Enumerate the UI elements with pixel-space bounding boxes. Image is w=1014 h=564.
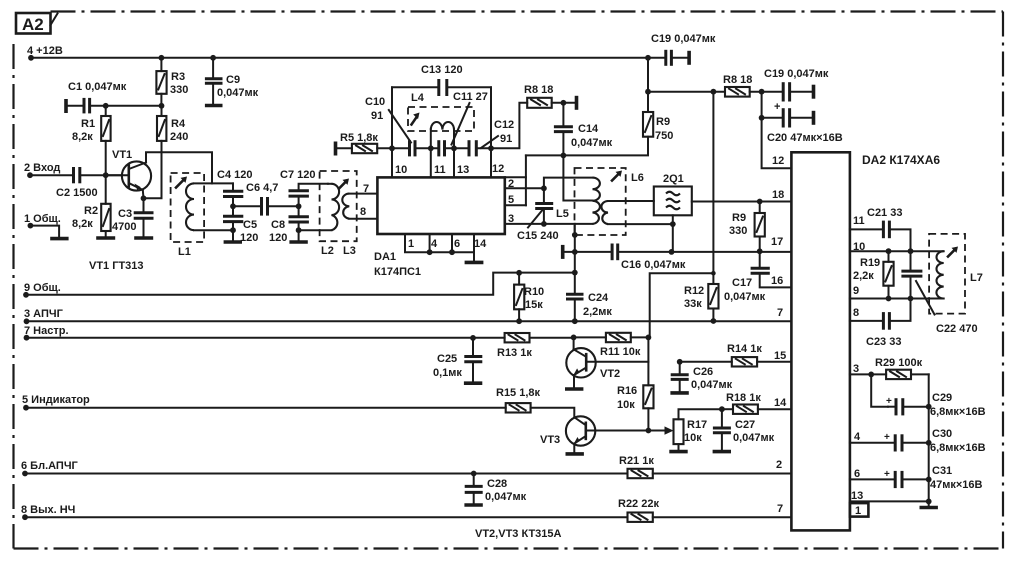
svg-text:0,1мк: 0,1мк (433, 367, 462, 379)
resistor R18 (722, 392, 792, 414)
capacitor C29 (886, 392, 986, 418)
svg-text:18: 18 (772, 189, 784, 201)
wire pin 12 riser (490, 87, 492, 177)
inductor L6 (601, 172, 672, 224)
capacitor C24 (566, 292, 612, 321)
svg-text:L4: L4 (411, 92, 425, 104)
wire obsh-1 to ground (30, 226, 59, 238)
terminal (C19 top right) (687, 51, 691, 65)
node VT1 emitter junction (141, 195, 147, 201)
ground (C3) (134, 236, 153, 240)
wire pin 3 line (850, 373, 886, 375)
terminal (R8 right) (575, 96, 579, 110)
svg-text:C5: C5 (243, 219, 257, 231)
svg-text:R8 18: R8 18 (524, 84, 553, 96)
svg-text:C8: C8 (271, 219, 285, 231)
node R9 top junction (645, 89, 651, 95)
svg-text:VT3: VT3 (540, 434, 560, 446)
node pin11/L4 junction (428, 145, 434, 151)
capacitor C9 (205, 58, 259, 104)
capacitor C4 (217, 169, 252, 206)
wire C29 link (871, 374, 888, 406)
resistor R14 (727, 343, 791, 367)
node 1 Obsh label (24, 213, 61, 229)
capacitor C1 (68, 81, 162, 113)
node VT2 collector junction (571, 335, 577, 341)
svg-text:C26: C26 (693, 366, 713, 378)
node R10 bottom junction (516, 318, 522, 324)
svg-text:VT1 ГТ313: VT1 ГТ313 (89, 260, 144, 272)
svg-text:C29: C29 (932, 392, 952, 404)
svg-text:9: 9 (853, 285, 859, 297)
svg-text:13: 13 (851, 490, 863, 502)
node pin13 rail junction (926, 499, 932, 505)
resistor R8 (first) (524, 84, 575, 108)
resistor R12 (684, 273, 719, 321)
svg-text:L2: L2 (321, 245, 334, 257)
svg-text:0,047мк: 0,047мк (733, 432, 775, 444)
node C22 top junction (908, 248, 914, 254)
svg-text:2Q1: 2Q1 (663, 173, 684, 185)
svg-text:C22 470: C22 470 (936, 323, 978, 335)
wire APCHG line to DA2 pin7 (27, 320, 792, 322)
svg-text:DA2 К174ХА6: DA2 К174ХА6 (862, 153, 940, 167)
node C27 junction (719, 406, 725, 412)
svg-text:DA1: DA1 (374, 251, 396, 263)
terminal (C19-2 right) (812, 85, 816, 99)
wire pin 10 line (850, 250, 944, 252)
capacitor C19 (second) (764, 68, 829, 102)
svg-text:C31: C31 (932, 465, 952, 477)
node 9 Obsh label (23, 282, 61, 298)
svg-text:R17: R17 (687, 419, 707, 431)
node C15 top junction (541, 185, 547, 191)
resistor R15 (496, 387, 574, 417)
svg-text:4700: 4700 (112, 221, 136, 233)
wire pin 11 lead (430, 148, 432, 177)
svg-text:16: 16 (771, 275, 783, 287)
svg-text:91: 91 (500, 133, 512, 145)
svg-text:5: 5 (508, 194, 514, 206)
resistor R1 (72, 106, 111, 175)
node R8/C14 junction (561, 100, 567, 106)
svg-text:R29 100к: R29 100к (875, 357, 923, 369)
svg-text:C10: C10 (365, 96, 385, 108)
svg-text:0,047мк: 0,047мк (485, 491, 527, 503)
svg-text:C15 240: C15 240 (517, 230, 559, 242)
wire pin 10 riser (391, 87, 393, 177)
svg-text:R19: R19 (860, 257, 880, 269)
svg-text:C13 120: C13 120 (421, 64, 463, 76)
wire pin 13 line (850, 500, 929, 502)
svg-text:A2: A2 (22, 15, 44, 34)
resistor R16 (617, 385, 654, 431)
node 5 Indikator label (22, 394, 90, 411)
wire DA1 bottom pins (405, 234, 474, 255)
svg-text:L6: L6 (631, 172, 644, 184)
svg-text:4 +12В: 4 +12В (27, 45, 63, 57)
svg-text:2,2мк: 2,2мк (583, 306, 612, 318)
capacitor C5 (223, 206, 258, 244)
capacitor C7 (280, 169, 328, 206)
capacitor C27 (713, 409, 775, 450)
wire Bl.APCHG line (25, 473, 628, 475)
svg-text:R4: R4 (171, 118, 186, 130)
svg-text:C6 4,7: C6 4,7 (246, 182, 278, 194)
capacitor C6 (233, 182, 299, 216)
svg-text:1: 1 (855, 505, 861, 517)
wire ZQ1 bottom lead (672, 215, 674, 251)
inductor L7 (936, 251, 982, 298)
node R12 T junction (711, 271, 716, 276)
node R3/R4 junction (159, 103, 165, 109)
svg-text:R14 1к: R14 1к (727, 343, 762, 355)
svg-text:240: 240 (170, 131, 188, 143)
wire Vyh.NCh line (25, 516, 628, 518)
inductor L4 (411, 92, 454, 148)
svg-text:10к: 10к (684, 432, 702, 444)
svg-text:0,047мк: 0,047мк (571, 137, 613, 149)
svg-text:R8 18: R8 18 (723, 74, 752, 86)
ground (VT3 emitter) (566, 452, 584, 456)
svg-text:VT2,VT3 КТ315А: VT2,VT3 КТ315А (475, 528, 562, 540)
node base junction (103, 172, 109, 178)
ground (C28) (464, 503, 482, 507)
node R19 bottom junction (886, 296, 892, 302)
node C19-2 junction (759, 89, 765, 95)
svg-text:13: 13 (457, 164, 469, 176)
node R9-330 top junction (757, 199, 763, 205)
resistor R3 (156, 58, 188, 106)
resistor R13 (497, 333, 574, 359)
svg-text:R3: R3 (171, 71, 185, 83)
svg-text:R2: R2 (84, 205, 98, 217)
svg-text:33к: 33к (684, 298, 702, 310)
svg-text:R5 1,8к: R5 1,8к (340, 132, 378, 144)
wire R12 feed riser (712, 92, 714, 274)
svg-text:10к: 10к (617, 399, 635, 411)
svg-text:14: 14 (774, 397, 787, 409)
node riser/obsh junction (572, 270, 578, 276)
resistor R2 (72, 175, 111, 236)
A2 title box (16, 13, 58, 34)
svg-text:R10: R10 (524, 286, 544, 298)
svg-text:L1: L1 (178, 246, 191, 258)
svg-text:C27: C27 (735, 419, 755, 431)
capacitor C20 (762, 101, 843, 144)
svg-text:К174ПС1: К174ПС1 (374, 266, 421, 278)
node pin13/L4 junction (451, 145, 457, 151)
capacitor C28 (465, 471, 527, 504)
wire osc line to R8 (491, 103, 527, 149)
svg-text:11: 11 (434, 164, 446, 176)
svg-text:R22 22к: R22 22к (618, 498, 659, 510)
terminal (C1 left) (64, 99, 68, 113)
capacitor C17 (724, 251, 791, 303)
svg-text:C1 0,047мк: C1 0,047мк (68, 81, 127, 93)
capacitor C30 (884, 428, 986, 454)
inductor L1 dashed box (171, 173, 205, 242)
ground (C27) (713, 450, 731, 454)
svg-text:C14: C14 (578, 123, 599, 135)
node C22 bottom junction (908, 296, 914, 302)
node C16/vert junction (572, 249, 578, 255)
svg-text:7: 7 (363, 183, 369, 195)
svg-text:15к: 15к (525, 299, 543, 311)
transistor VT2 (566, 337, 648, 387)
svg-text:R15 1,8к: R15 1,8к (496, 387, 541, 399)
node VT3 base junction (646, 428, 652, 434)
L7 tuning arrow (948, 247, 958, 257)
op-amp/IC DA2 K174XA6 box (791, 152, 940, 530)
svg-text:91: 91 (371, 110, 383, 122)
svg-text:6: 6 (454, 238, 460, 250)
svg-text:11: 11 (853, 215, 865, 227)
svg-text:0,047мк: 0,047мк (217, 87, 259, 99)
wire oscillator top link (392, 86, 491, 88)
node R29 left junction (868, 372, 874, 378)
node ZQ1/C16 junction (669, 249, 675, 255)
svg-text:9 Общ.: 9 Общ. (24, 282, 61, 294)
resistor R5 (337, 132, 409, 153)
svg-text:120: 120 (240, 232, 258, 244)
wire pin 13 lead (453, 148, 455, 177)
node C20 junction (759, 115, 765, 121)
node C5/L1 bottom junction (230, 227, 236, 233)
svg-text:3: 3 (853, 363, 859, 375)
filter ZQ1 (654, 173, 692, 215)
svg-text:47мк×16В: 47мк×16В (930, 479, 983, 491)
node C1/R1 junction (103, 103, 109, 109)
svg-text:0,047мк: 0,047мк (724, 291, 766, 303)
wire pins 2-5 riser (525, 155, 527, 205)
svg-text:6,8мк×16В: 6,8мк×16В (930, 406, 986, 418)
ground (C5) (224, 240, 242, 244)
node C14 bottom junction (561, 153, 567, 159)
node C24 bottom junction (572, 318, 578, 324)
svg-text:C11 27: C11 27 (453, 91, 488, 103)
capacitor C15 (517, 188, 559, 242)
svg-text:12: 12 (772, 155, 784, 167)
node C4/C5/C6 junction (230, 203, 236, 209)
svg-text:2 Вход: 2 Вход (24, 162, 60, 174)
svg-text:2,2к: 2,2к (853, 270, 874, 282)
svg-text:14: 14 (474, 238, 487, 250)
svg-text:L7: L7 (970, 272, 983, 284)
capacitor C13 (421, 64, 463, 96)
node R8-2 left junction (711, 89, 717, 95)
wire pin 17 line (565, 251, 792, 253)
node L6/ZQ1 bottom junction (670, 221, 676, 227)
svg-text:C12: C12 (494, 119, 514, 131)
wire input line (30, 174, 73, 176)
svg-text:C7 120: C7 120 (280, 169, 315, 181)
svg-text:8: 8 (360, 206, 366, 218)
inductor L1 (178, 183, 233, 258)
node C31 rail junction (926, 477, 932, 483)
transistor VT1 (106, 149, 212, 198)
capacitor C3 (112, 198, 154, 236)
node 7 Nastr label (24, 325, 69, 341)
node C8/L2 bottom junction (296, 227, 302, 233)
node C30 rail junction (926, 440, 932, 446)
svg-text:C30: C30 (932, 428, 952, 440)
wire obsh riser (L5 bottom to C24) (574, 224, 576, 294)
wire DA1 pin2 box top (505, 176, 526, 178)
transistor VT3 (540, 416, 665, 452)
capacitor C11 (439, 91, 488, 156)
node riser/dashed crossing (572, 232, 578, 238)
node R12 bottom junction (711, 318, 717, 324)
svg-text:7: 7 (777, 307, 783, 319)
svg-text:4: 4 (431, 238, 438, 250)
svg-text:10: 10 (395, 164, 407, 176)
inductor L2 (299, 184, 340, 257)
svg-text:8,2к: 8,2к (72, 218, 93, 230)
node 8 Vyh.NCh label (21, 504, 75, 520)
svg-text:R18 1к: R18 1к (726, 392, 761, 404)
wire Nastr line (27, 337, 505, 339)
ground (C9) (205, 104, 223, 108)
svg-text:C16 0,047мк: C16 0,047мк (621, 259, 686, 271)
node R3 top rail junction (159, 55, 165, 61)
ground (1 Obsh) (50, 237, 68, 241)
svg-text:R16: R16 (617, 385, 637, 397)
node C15 bottom junction (541, 221, 547, 227)
L1 tuning arrow (176, 177, 187, 188)
svg-text:750: 750 (655, 130, 673, 142)
terminal (C20 right) (812, 111, 816, 125)
svg-text:+: + (774, 101, 780, 113)
capacitor C21 (867, 207, 911, 251)
ground (R2) (96, 236, 115, 240)
inductor L5 L6 dashed box (575, 168, 626, 235)
svg-text:0,047мк: 0,047мк (691, 379, 733, 391)
terminal (C16 left) (561, 245, 565, 259)
svg-text:C17: C17 (732, 277, 752, 289)
svg-text:C19 0,047мк: C19 0,047мк (651, 33, 716, 45)
svg-text:L3: L3 (343, 245, 356, 257)
svg-text:6,8мк×16В: 6,8мк×16В (930, 442, 986, 454)
wire pin 6 line (850, 478, 895, 480)
svg-text:L5: L5 (556, 208, 569, 220)
svg-text:R21 1к: R21 1к (619, 455, 654, 467)
capacitor C25 (433, 335, 482, 382)
terminal (R5 left) (334, 142, 338, 156)
wire pin 9 line (850, 298, 944, 300)
svg-text:3 АПЧГ: 3 АПЧГ (24, 308, 64, 320)
svg-text:8,2к: 8,2к (72, 131, 93, 143)
svg-text:R1: R1 (81, 118, 95, 130)
node C7/C8 junction (296, 203, 302, 209)
svg-text:4: 4 (854, 431, 861, 443)
svg-text:C28: C28 (487, 478, 507, 490)
capacitor C22 (901, 251, 977, 335)
resistor R17 trimmer (665, 409, 722, 450)
inductor L5 (544, 155, 600, 224)
svg-text:R9: R9 (732, 212, 746, 224)
ground (R17) (669, 450, 687, 454)
wire R12 top link (650, 273, 714, 337)
wire ZQ1 to DA2 pin 18 (692, 201, 792, 203)
op-amp/IC DA1 K174PS1 box (374, 177, 505, 278)
wire DA1 pin 2 line (505, 187, 544, 189)
svg-text:C4 120: C4 120 (217, 169, 252, 181)
svg-text:6: 6 (854, 468, 860, 480)
svg-text:+: + (884, 432, 890, 443)
ground (right rail) (920, 506, 938, 510)
svg-text:R13 1к: R13 1к (497, 347, 532, 359)
resistor R29 (875, 357, 929, 379)
wire pin 4 line (850, 442, 895, 444)
svg-text:8: 8 (853, 307, 859, 319)
inductor L2 L3 dashed box (320, 171, 357, 241)
svg-text:17: 17 (771, 236, 783, 248)
svg-text:VT1: VT1 (112, 149, 132, 161)
wire right rail (928, 374, 930, 506)
capacitor C26 (671, 362, 733, 392)
node C29 rail junction (926, 404, 932, 410)
node 2 Vhod label (24, 162, 60, 178)
pin 1 box DA2 (850, 503, 869, 517)
svg-text:C24: C24 (588, 292, 609, 304)
ground (VT2 emitter) (565, 387, 583, 391)
resistor R22 (618, 498, 791, 522)
resistor R19 (853, 251, 894, 298)
node 4 +12V label (27, 45, 63, 61)
L2L3 tuning arrow (339, 179, 349, 189)
capacitor C16 (612, 244, 686, 272)
svg-text:7: 7 (777, 503, 783, 515)
ground (C26) (670, 391, 688, 395)
capacitor C23 (866, 299, 911, 349)
svg-text:C23 33: C23 33 (866, 336, 901, 348)
wire pin 11 line (850, 228, 883, 230)
svg-text:+: + (884, 469, 890, 480)
resistor R21 (619, 455, 791, 478)
node +12V drop junction (645, 55, 651, 61)
node C9 rail junction (210, 55, 216, 61)
wire pin 8 line (850, 320, 883, 322)
resistor R10 (514, 270, 544, 321)
node pin12 junction (488, 145, 494, 151)
capacitor C19 (top) (651, 33, 716, 66)
svg-text:R12: R12 (684, 285, 704, 297)
svg-text:C25: C25 (437, 353, 457, 365)
ground (C8) (289, 240, 307, 244)
capacitor C8 (269, 206, 309, 244)
svg-text:330: 330 (729, 225, 747, 237)
svg-text:7 Настр.: 7 Настр. (24, 325, 69, 337)
node 3 APCHG label (24, 308, 64, 324)
svg-text:C3: C3 (118, 208, 132, 220)
wire +12V rail (31, 57, 666, 59)
L5L6 tuning arrow (612, 171, 622, 181)
node R9-330/C17 junction (757, 248, 763, 254)
wire DA1 pin 3 line (505, 223, 593, 225)
wire +12V drop to R9 (647, 58, 649, 112)
resistor R4 (144, 106, 189, 199)
capacitor C10 (365, 96, 439, 156)
resistor R8 (second) (723, 74, 783, 97)
svg-text:12: 12 (492, 163, 504, 175)
resistor R11 (574, 333, 649, 358)
svg-text:2: 2 (508, 178, 514, 190)
svg-text:C19 0,047мк: C19 0,047мк (764, 68, 829, 80)
wire pin 15 line (680, 361, 732, 363)
L4 tuning arrow (412, 113, 420, 125)
svg-text:1: 1 (408, 238, 414, 250)
